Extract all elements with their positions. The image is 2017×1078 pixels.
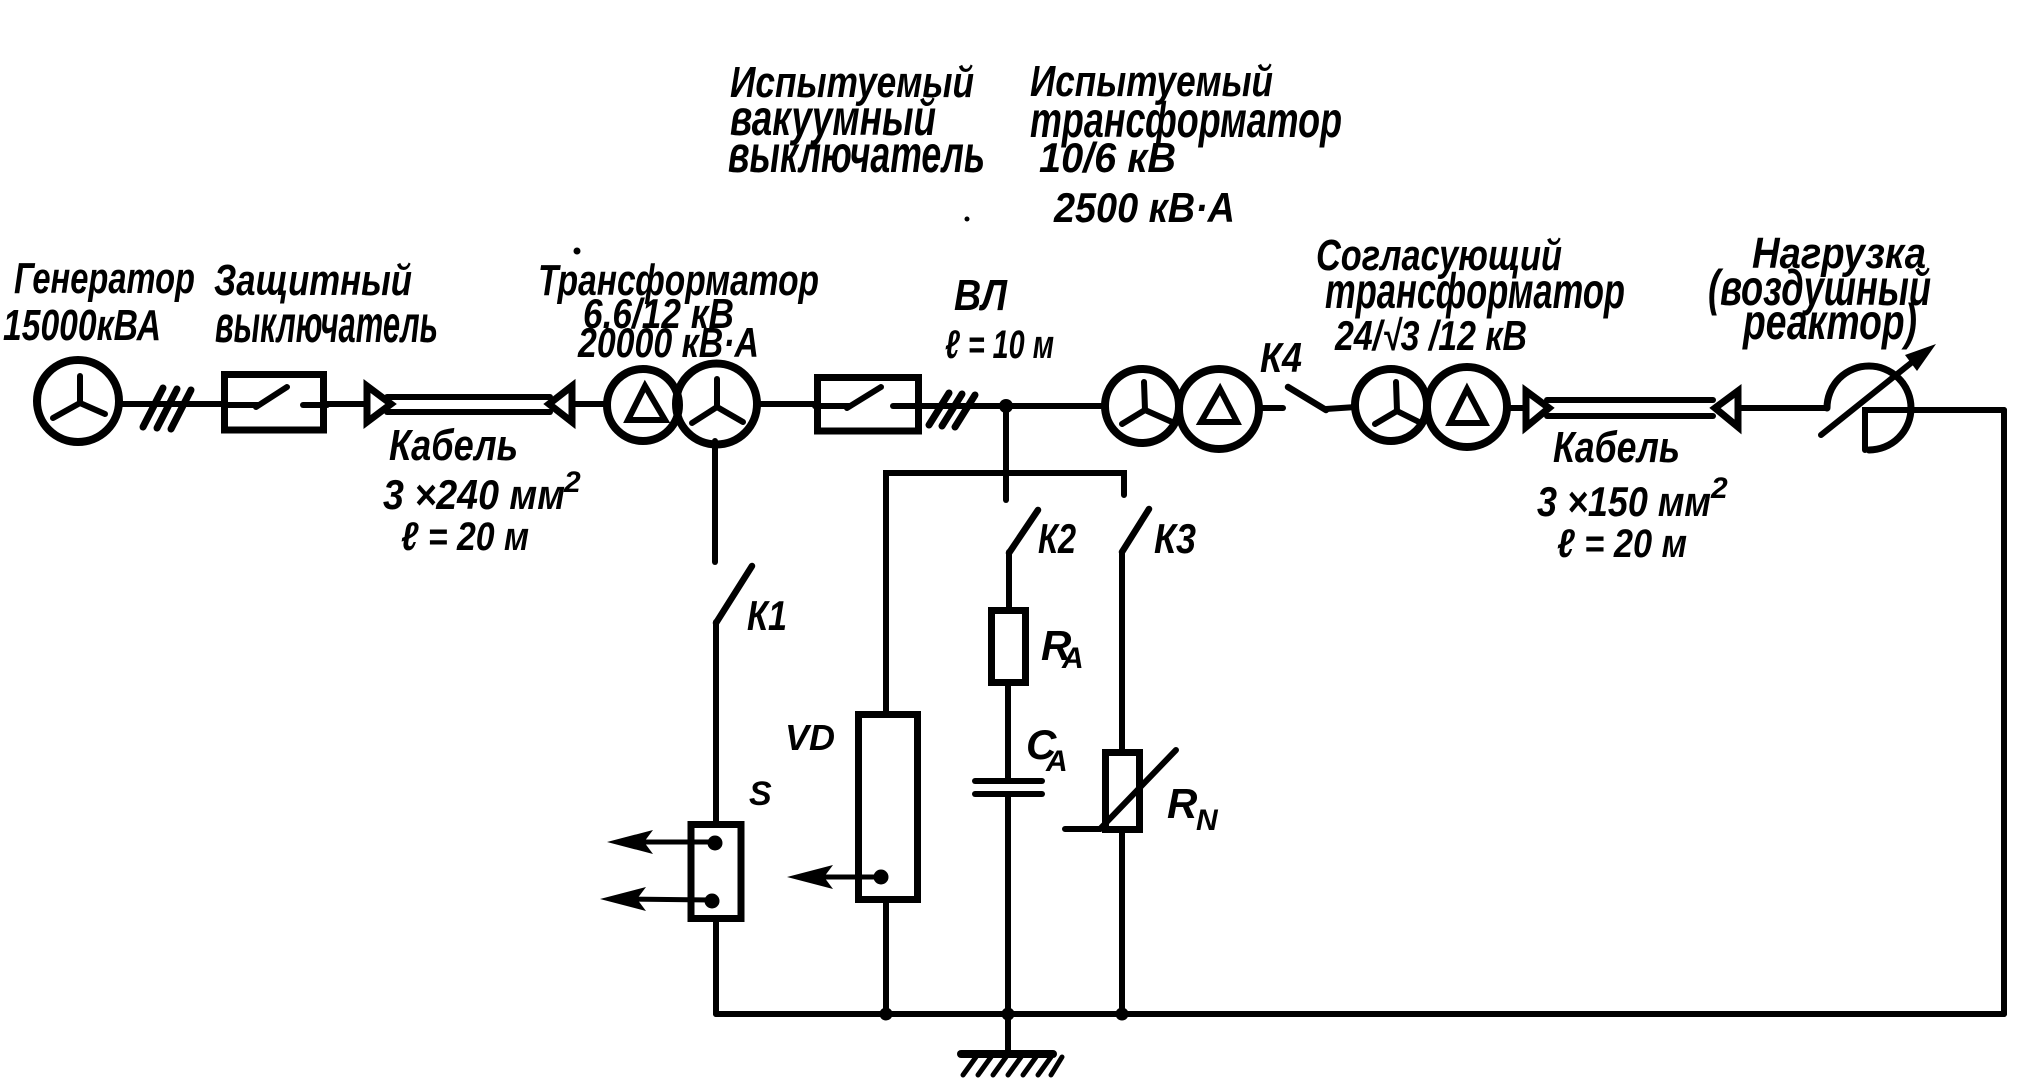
- switch K1 blade: [716, 566, 752, 623]
- junction RN/bus dot: [1116, 1008, 1129, 1021]
- T1 star symbol: [692, 379, 743, 423]
- load adjuster arrow: [1821, 359, 1916, 435]
- cable 2 body (double line): [1547, 397, 1713, 403]
- generator G circle: [37, 360, 119, 442]
- svg-text:3 ×240 мм: 3 ×240 мм: [383, 471, 565, 518]
- svg-text:ВЛ: ВЛ: [954, 271, 1008, 320]
- junction CA/bus dot: [1002, 1008, 1015, 1021]
- wire RN to bottom bus: [1119, 833, 1125, 1014]
- svg-text:24/√3 /12 кВ: 24/√3 /12 кВ: [1334, 312, 1527, 359]
- hatch marks /// left: [143, 388, 191, 429]
- cable 1 right terminal triangle: [549, 386, 572, 422]
- vacuum breaker box: [818, 378, 919, 432]
- wire K3 to RN: [1119, 552, 1125, 749]
- spark gap S box: [691, 825, 741, 919]
- wire: node down to K2: [1003, 406, 1009, 500]
- svg-text:15000кВА: 15000кВА: [3, 301, 161, 350]
- node A junction dot: [999, 399, 1013, 413]
- S lower electrode dot: [705, 894, 720, 909]
- T3 star symbol: [1375, 382, 1421, 424]
- switch K2 blade: [1009, 510, 1038, 553]
- cable 2 right terminal triangle: [1715, 391, 1738, 427]
- svg-text:S: S: [749, 775, 772, 813]
- breaker Q1 (защитный выключатель) box: [225, 375, 324, 431]
- cable 2 left terminal triangle: [1526, 391, 1549, 427]
- load reactor notch: [1865, 410, 2004, 450]
- right edge wire down: [2001, 410, 2007, 1014]
- wire: generator to breaker: [120, 401, 224, 407]
- svg-text:К1: К1: [747, 592, 787, 639]
- transformer T2 winding 2 (delta): [1179, 369, 1259, 449]
- VD arrow: [805, 875, 878, 880]
- wire: T3 to cable 2: [1507, 405, 1526, 411]
- svg-text:2500 кВ·А: 2500 кВ·А: [1053, 184, 1235, 231]
- vacuum breaker contacts: [815, 387, 921, 408]
- switch K1 branch wire from T1: [712, 441, 718, 562]
- bottom bus wire: [716, 1011, 2004, 1017]
- transformer T2 winding 1 (star): [1105, 369, 1179, 443]
- stray scan dot above Трансформатор: [574, 248, 581, 255]
- stray scan dot below 2500 label: [965, 217, 970, 222]
- svg-text:Кабель: Кабель: [1553, 423, 1680, 472]
- T3 delta symbol: [1450, 389, 1485, 423]
- svg-text:10/6 кВ: 10/6 кВ: [1039, 134, 1176, 181]
- wire RA to CA: [1005, 686, 1011, 779]
- wire S to bottom bus: [713, 922, 719, 1014]
- breaker Q1 contacts: [224, 387, 327, 407]
- svg-text:20000 кВ·А: 20000 кВ·А: [577, 319, 759, 366]
- transformer T3 winding 2 (delta): [1427, 367, 1507, 447]
- cable 1 left terminal triangle: [367, 386, 391, 422]
- hatch marks /// right: [929, 393, 975, 427]
- wire CA to bottom bus: [1005, 794, 1011, 1014]
- svg-text:3 ×150 мм: 3 ×150 мм: [1537, 478, 1711, 525]
- ground symbol: [1005, 1014, 1011, 1053]
- generator star symbol: [53, 376, 105, 418]
- wire K2 to RA: [1006, 552, 1012, 607]
- svg-text:A: A: [1061, 642, 1084, 675]
- transformer T1 winding 1 (delta): [607, 369, 679, 441]
- svg-text:2: 2: [563, 466, 581, 499]
- transformer T1 winding 2 (star): [676, 364, 757, 445]
- svg-text:N: N: [1196, 804, 1219, 837]
- cable 1 body (double line): [387, 394, 550, 400]
- svg-text:реактор): реактор): [1742, 294, 1917, 350]
- wire: T1 to vacuum breaker: [756, 401, 816, 407]
- S upper electrode dot: [708, 836, 723, 851]
- S upper arrow: [625, 840, 712, 845]
- T2 delta symbol: [1201, 389, 1237, 422]
- svg-text:К3: К3: [1154, 515, 1196, 562]
- T2 star symbol: [1122, 382, 1172, 424]
- svg-text:R: R: [1167, 780, 1198, 827]
- svg-text:ℓ = 20 м: ℓ = 20 м: [1557, 522, 1687, 566]
- wire: K4 to T3: [1326, 407, 1356, 409]
- svg-text:Генератор: Генератор: [14, 254, 195, 303]
- wire K1 to S: [713, 622, 719, 822]
- svg-text:К4: К4: [1260, 334, 1302, 381]
- resistor RA box: [992, 611, 1026, 683]
- transformer T3 winding 1 (star): [1355, 369, 1427, 441]
- wire: breaker to cable 1: [327, 401, 367, 407]
- varistor RN box: [1106, 753, 1140, 830]
- wire: cable 1 to transformer T1: [575, 401, 605, 407]
- svg-text:Кабель: Кабель: [389, 421, 518, 470]
- S lower arrow: [618, 899, 711, 900]
- svg-text:К2: К2: [1038, 515, 1076, 562]
- varistor RN diagonal: [1065, 750, 1176, 829]
- svg-text:трансформатор: трансформатор: [1325, 263, 1625, 319]
- wire: vacuum breaker to node: [921, 403, 1101, 409]
- svg-text:ℓ = 20 м: ℓ = 20 м: [401, 515, 529, 559]
- wire: cable 2 to load: [1740, 405, 1827, 411]
- junction VD/bus dot: [880, 1008, 893, 1021]
- svg-text:ℓ = 10 м: ℓ = 10 м: [945, 323, 1054, 367]
- svg-text:выключатель: выключатель: [215, 296, 438, 354]
- load reactor arc: [1827, 366, 1911, 450]
- VD electrode dot: [874, 870, 889, 885]
- capacitor CA plates: [975, 778, 1042, 784]
- svg-text:VD: VD: [785, 717, 835, 758]
- svg-text:A: A: [1045, 745, 1068, 778]
- switch K3 blade: [1122, 509, 1149, 552]
- wire: T2 to K4: [1259, 405, 1283, 411]
- svg-text:2: 2: [1710, 472, 1728, 505]
- T1 delta symbol: [628, 386, 665, 420]
- switch K4 blade: [1288, 387, 1326, 410]
- wire VD to bottom bus: [883, 903, 889, 1014]
- sub-bus wire (horizontal): [886, 473, 1124, 711]
- svg-text:выключатель: выключатель: [728, 126, 985, 184]
- arrester VD box: [859, 715, 918, 900]
